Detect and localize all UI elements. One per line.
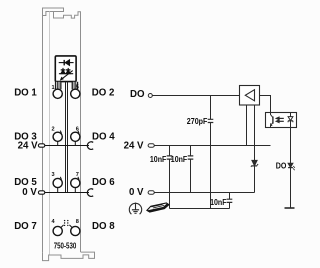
- svg-text:2: 2: [51, 126, 54, 132]
- svg-text:DO 6: DO 6: [92, 177, 115, 188]
- ellipsis dots between clamp 4 and 8: [64, 220, 69, 226]
- amplifier triangle: [245, 90, 254, 101]
- svg-text:8: 8: [76, 219, 79, 225]
- phototransistor in optocoupler: [271, 113, 273, 128]
- power jumper contact arc 0V: [87, 189, 93, 197]
- clamp 4: [53, 225, 63, 236]
- capacitor C3 10nF wire with plates: [188, 146, 194, 193]
- function box F1: [55, 56, 76, 82]
- status LED D2 on output: [288, 163, 295, 170]
- clamp 1: [53, 89, 62, 98]
- 0V feed line through module: [45, 192, 89, 194]
- optocoupler box U2: [266, 113, 297, 128]
- svg-text:10nF: 10nF: [171, 155, 187, 164]
- LED symbols in function box: [59, 68, 73, 80]
- svg-text:DO 1: DO 1: [14, 88, 37, 99]
- svg-text:6: 6: [76, 126, 79, 132]
- svg-text:750-530: 750-530: [54, 242, 77, 251]
- 24V feed line through module: [45, 145, 89, 147]
- terminal circle DO: [148, 94, 152, 98]
- clamp 3: [53, 177, 62, 193]
- svg-text:DO 8: DO 8: [92, 221, 115, 232]
- svg-text:0 V: 0 V: [129, 187, 144, 198]
- amplifier box U1: [240, 86, 260, 106]
- capacitor C1 wire with plates: [208, 96, 214, 209]
- LED in optocoupler: [288, 113, 293, 128]
- svg-text:10nF: 10nF: [210, 198, 226, 207]
- svg-text:270pF: 270pF: [187, 117, 208, 126]
- svg-text:1: 1: [51, 85, 54, 91]
- svg-text:7: 7: [76, 172, 79, 178]
- svg-text:DO 7: DO 7: [14, 221, 37, 232]
- capacitor C2 10nF wire with plates: [167, 146, 173, 209]
- contact block right: [72, 82, 79, 90]
- svg-text:DO: DO: [130, 89, 145, 100]
- terminal stadium 24V: [148, 144, 154, 147]
- wire amplifier supply pin left: [246, 105, 248, 146]
- wire amplifier supply pin right: [254, 105, 256, 161]
- capacitor C4 10nF wire with plates: [227, 193, 233, 209]
- svg-text:DO: DO: [276, 161, 287, 171]
- 24V terminal stadium on module: [38, 144, 44, 147]
- earth symbol: [129, 203, 141, 215]
- contact block left: [55, 82, 62, 90]
- clamp 8: [69, 225, 80, 236]
- earth rail wire: [170, 208, 230, 210]
- terminal stadium 0V: [148, 191, 154, 194]
- wire DO to amplifier: [152, 95, 239, 97]
- svg-text:24 V: 24 V: [18, 141, 38, 152]
- module housing inner contour line: [49, 12, 51, 256]
- svg-text:10nF: 10nF: [150, 155, 166, 164]
- module housing bottom foot profile: [43, 252, 95, 261]
- clamp 2: [53, 131, 62, 146]
- light arrows in optocoupler: [276, 117, 284, 122]
- 0V terminal stadium on module: [38, 191, 44, 194]
- svg-text:24 V: 24 V: [124, 141, 144, 152]
- wire amplifier output to optocoupler: [260, 96, 271, 114]
- diode symbol in function box: [59, 60, 74, 66]
- center wire pair: [66, 82, 68, 193]
- clamp 6: [71, 131, 80, 146]
- DO output end bar: [285, 207, 295, 209]
- power jumper contact arc 24V: [87, 142, 93, 150]
- 0V rail wire: [154, 192, 254, 194]
- clamp 5: [71, 89, 80, 98]
- zener diode D1: [251, 160, 258, 192]
- svg-text:0 V: 0 V: [22, 187, 37, 198]
- svg-text:3: 3: [51, 172, 54, 178]
- svg-text:DO 4: DO 4: [92, 131, 115, 142]
- 24V rail wire: [154, 145, 270, 147]
- clamp 7: [71, 177, 80, 193]
- DO output wire: [290, 128, 292, 209]
- module housing top latch profile: [43, 8, 81, 252]
- svg-text:5: 5: [76, 84, 79, 90]
- svg-text:4: 4: [51, 219, 55, 225]
- carrier rail wedge symbol: [147, 203, 169, 212]
- svg-text:DO 2: DO 2: [92, 88, 115, 99]
